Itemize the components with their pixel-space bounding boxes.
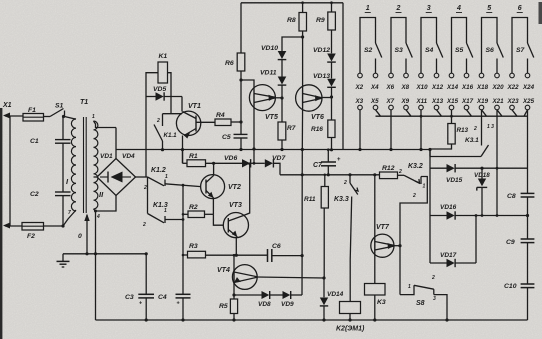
svg-text:VD11: VD11: [260, 70, 277, 77]
svg-text:X1: X1: [2, 102, 12, 109]
switch S2: [376, 43, 382, 58]
wire 0 output lead: [86, 215, 88, 254]
svg-text:6: 6: [518, 5, 522, 12]
svg-text:VD1: VD1: [100, 153, 113, 160]
wire VT7 to K3 coil: [374, 253, 376, 284]
svg-text:X5: X5: [370, 98, 379, 105]
svg-text:R7: R7: [287, 125, 296, 132]
diode VD6: [242, 159, 250, 167]
svg-text:VT5: VT5: [265, 114, 278, 121]
resistor R6: [237, 53, 245, 71]
wire K3.2 fixed path: [400, 177, 427, 295]
wire primary bottom to F2 line: [63, 210, 76, 226]
svg-text:S4: S4: [425, 47, 434, 54]
capacitor C5: [234, 133, 248, 135]
svg-text:S7: S7: [516, 47, 526, 54]
svg-text:VD4: VD4: [122, 153, 135, 160]
fuse F2: [22, 223, 44, 231]
svg-text:K3.1: K3.1: [465, 137, 479, 144]
node R5-VD8 branch: [232, 293, 235, 296]
node C7 on lower bus: [327, 173, 330, 176]
wire X11 to main bus: [420, 110, 422, 150]
wire R6 branch to VT5: [241, 80, 254, 90]
node K3.3 on lower bus: [348, 173, 351, 176]
capacitor C2: [55, 191, 71, 193]
node VT5 emitter junction: [280, 96, 283, 99]
svg-text:R12: R12: [382, 165, 395, 172]
wire C6 to VT6 column: [272, 255, 302, 257]
node transformer 0 on ground bus: [85, 252, 88, 255]
svg-text:R4: R4: [216, 112, 225, 119]
svg-text:R11: R11: [304, 196, 316, 203]
diode VD15: [447, 164, 455, 172]
terminal X11: [419, 105, 424, 110]
node VT6 column on lower bus: [301, 173, 304, 176]
wire bridge 6: [512, 18, 528, 74]
diode VD8: [262, 291, 270, 299]
node R8 branch: [301, 35, 304, 38]
wire R1 to VD6: [206, 162, 243, 164]
wire X1 left riser: [9, 116, 11, 226]
svg-text:1: 1: [408, 284, 411, 290]
wire S1 to primary top: [73, 118, 76, 121]
svg-text:X21: X21: [492, 98, 505, 105]
node K2 on bottom rail: [348, 318, 351, 321]
svg-text:X13: X13: [431, 98, 444, 105]
diode VD5: [146, 96, 156, 98]
svg-text:VD10: VD10: [261, 45, 278, 52]
node VT7 emitter junction: [398, 244, 401, 247]
svg-text:VD7: VD7: [272, 155, 286, 162]
node secondary-bottom ground tee: [94, 210, 97, 213]
wire bridge 2: [391, 18, 406, 74]
fuse F1: [23, 114, 44, 122]
node ladder x476: [475, 214, 478, 217]
diode VD9: [283, 291, 291, 299]
svg-text:X2: X2: [355, 84, 364, 91]
wire C1 riser: [62, 117, 64, 140]
wire K1.3 to vertical: [165, 219, 183, 221]
link X17 to terminal bus: [467, 110, 472, 116]
terminal X17: [464, 105, 469, 110]
wire VD12-VD13: [331, 62, 333, 78]
wire rail C8-C9: [527, 197, 529, 239]
svg-text:C2: C2: [30, 191, 39, 198]
wire VD14 lead: [323, 278, 325, 297]
wire vertical to R2: [183, 213, 188, 215]
terminal X24: [525, 73, 530, 78]
svg-text:X9: X9: [401, 98, 410, 105]
wire rail C10-bottom: [527, 288, 529, 320]
switch S5: [467, 43, 473, 58]
node S8 on bottom rail: [445, 318, 448, 321]
transformer T1 core: [83, 117, 85, 213]
transistor VT2: [201, 175, 225, 199]
wire K1.2 to VT2 base: [165, 184, 201, 187]
wire bridge top riser: [115, 128, 117, 160]
svg-text:VT4: VT4: [217, 267, 230, 274]
svg-text:R1: R1: [189, 153, 198, 160]
wire X15 to R13: [451, 110, 453, 124]
wire bridge 5: [482, 18, 498, 74]
wire K1.1 node: [163, 113, 183, 115]
contact K1.2: [148, 177, 165, 186]
svg-text:C10: C10: [504, 283, 517, 290]
svg-text:5: 5: [487, 5, 491, 12]
terminal X7: [389, 105, 394, 110]
relay coil K2: [340, 302, 361, 314]
terminal X3: [358, 105, 363, 110]
svg-text:S5: S5: [455, 47, 464, 54]
resistor R1: [187, 160, 206, 167]
wire VT6 base riser: [302, 37, 304, 90]
node VT1 emitter on main bus: [181, 148, 184, 151]
wire R8 to VD10: [282, 37, 303, 51]
wire C3 to bottom rail: [145, 298, 147, 320]
node VT3 collector tee: [248, 162, 251, 165]
wire S8 to bottom rail: [434, 295, 447, 320]
resistor R5: [230, 299, 237, 314]
wire R8 top: [302, 3, 304, 13]
node VT5 collector on main bus: [252, 147, 255, 150]
transistor VT6: [296, 85, 322, 111]
svg-text:X17: X17: [461, 98, 474, 105]
relay coil K1: [158, 62, 168, 83]
wire C1-C2: [62, 143, 64, 192]
wire VT3 base riser: [213, 214, 223, 225]
svg-text:R5: R5: [219, 303, 228, 310]
svg-text:VD12: VD12: [313, 47, 330, 54]
terminal X13: [434, 105, 439, 110]
wire VT5 emitter to diode chain: [276, 97, 283, 99]
node VD18 top: [480, 167, 483, 170]
node VT4 wire on VD14 column: [322, 276, 325, 279]
wire VD11 to R7: [281, 85, 283, 122]
wire R11 to VD14: [323, 208, 325, 278]
terminal X22: [510, 73, 515, 78]
wire lower bus: [280, 174, 380, 176]
svg-text:VT7: VT7: [376, 224, 390, 231]
wire rail C9-C10: [527, 243, 529, 284]
svg-text:X10: X10: [416, 84, 429, 91]
wire F1 to S1: [44, 116, 51, 118]
wire VD8 lead: [234, 294, 262, 296]
contact S8: [414, 285, 434, 289]
wire R12 to K3.2: [398, 174, 405, 176]
node R9 on rail: [330, 1, 333, 4]
contact K1.3: [148, 214, 165, 223]
X1 top arrow: [3, 113, 10, 119]
ground symbol: [62, 254, 64, 261]
terminal X20: [495, 73, 500, 78]
svg-text:2: 2: [431, 275, 435, 281]
wire bridge 3: [421, 18, 437, 74]
scan edge artifact left: [0, 108, 2, 339]
transistor VT3: [223, 213, 248, 238]
node C7 on main bus: [327, 148, 330, 151]
wire X25 rail top: [527, 110, 529, 194]
terminal X14: [449, 73, 454, 78]
contact K3.3: [349, 175, 351, 183]
svg-text:X16: X16: [461, 84, 474, 91]
wire X1 top lead: [5, 115, 23, 117]
svg-text:1: 1: [92, 114, 95, 120]
scan artifact top right: [539, 2, 542, 24]
terminal X23: [510, 105, 515, 110]
wire R8 bottom: [302, 31, 304, 37]
node VD18 bottom: [481, 214, 484, 217]
svg-text:7: 7: [68, 210, 71, 216]
X1 bottom arrow: [3, 223, 10, 229]
svg-text:X24: X24: [522, 84, 535, 91]
wire VD17 row: [430, 262, 447, 264]
svg-text:S8: S8: [416, 300, 425, 307]
wire VT6 emitter to right chain: [322, 97, 332, 99]
svg-text:X6: X6: [386, 84, 395, 91]
node R6-VT5 branch: [239, 78, 242, 81]
svg-text:C4: C4: [158, 294, 167, 301]
svg-text:VD5: VD5: [153, 86, 166, 93]
svg-text:X15: X15: [446, 98, 459, 105]
svg-text:VD15: VD15: [446, 177, 463, 184]
node R11 on lower bus: [324, 174, 327, 177]
wire R6 to C5: [240, 71, 242, 134]
svg-text:X7: X7: [386, 98, 395, 105]
svg-text:1: 1: [164, 208, 167, 214]
svg-text:+: +: [177, 301, 180, 307]
wire VT2 collector riser: [213, 163, 215, 175]
wire bridge minus riser: [95, 211, 97, 254]
capacitor C10: [521, 283, 535, 285]
wire VT4 emitter to VD14 column: [257, 277, 324, 278]
wire common vertical to bottom rail: [182, 185, 184, 294]
wire VT2 emitter: [212, 198, 214, 214]
diode VD17: [447, 259, 455, 267]
resistor R12: [380, 172, 398, 179]
node VT3-VT4 on C6 wire: [235, 254, 238, 257]
node ladder top: [428, 148, 431, 151]
wire VD5 loop to K1.2 riser: [145, 97, 147, 178]
svg-text:X18: X18: [476, 84, 489, 91]
wire VT3 emitter: [235, 237, 237, 255]
wire K3 to bottom rail: [374, 295, 376, 320]
transistor VT4: [232, 265, 257, 290]
svg-text:4: 4: [456, 5, 461, 12]
wire X3 to main bus: [359, 110, 361, 150]
contact K3.2: [404, 175, 420, 183]
switch S7: [528, 43, 534, 58]
switch S3: [406, 43, 412, 58]
0 output arrow: [84, 214, 89, 222]
resistor R4: [215, 119, 231, 126]
svg-text:C8: C8: [507, 193, 516, 200]
wire ladder left rail: [429, 150, 431, 264]
svg-text:1: 1: [366, 5, 370, 12]
wire VD6-VD7: [251, 162, 265, 164]
wire rail right riser: [342, 3, 344, 150]
terminal X4: [373, 73, 378, 78]
capacitor C1: [55, 139, 71, 141]
resistor R9: [328, 12, 336, 30]
resistor R8: [299, 13, 307, 32]
capacitor C3: [138, 293, 154, 295]
wire R13 bottom jog: [430, 144, 452, 149]
node VT7 on lower bus: [373, 173, 376, 176]
wire R2 to VT2 emitter: [205, 213, 214, 215]
svg-text:K1.2: K1.2: [151, 167, 166, 174]
svg-text:R16: R16: [311, 126, 323, 133]
diode VD7: [265, 159, 273, 167]
svg-text:S2: S2: [364, 47, 373, 54]
wire VD16 row: [430, 215, 447, 217]
svg-text:X4: X4: [370, 84, 379, 91]
node R5 on bottom rail: [232, 318, 235, 321]
terminal X25: [525, 105, 530, 110]
terminal X10: [419, 73, 424, 78]
svg-text:1 3: 1 3: [487, 124, 494, 130]
wire X1 bottom lead: [5, 225, 22, 227]
wire VT1 emitter to R1: [182, 150, 184, 164]
wire VD15 row: [430, 167, 447, 169]
terminal X16: [464, 73, 469, 78]
wire K3.3 to K2 coil: [350, 197, 352, 302]
svg-text:X8: X8: [401, 84, 410, 91]
svg-text:C3: C3: [125, 294, 134, 301]
node bridge minus on ground bus: [94, 252, 97, 255]
capacitor C9: [521, 238, 535, 240]
svg-text:VD9: VD9: [281, 301, 294, 308]
wire X21 riser: [496, 110, 498, 216]
link X13 to terminal bus: [437, 110, 442, 116]
wire R5 to bottom rail: [233, 314, 235, 321]
svg-text:X11: X11: [416, 98, 428, 105]
svg-text:R8: R8: [287, 17, 296, 24]
svg-text:VD17: VD17: [440, 252, 457, 259]
svg-text:C7: C7: [313, 162, 323, 169]
wire R6 column top: [240, 3, 242, 53]
svg-text:C6: C6: [272, 243, 281, 250]
switch S6: [497, 43, 503, 58]
svg-text:S6: S6: [486, 47, 495, 54]
link X9 to terminal bus: [406, 110, 411, 116]
wire X7 to main bus: [390, 110, 392, 150]
wire VT1 collector riser: [181, 97, 183, 112]
wire VT7 collector riser: [374, 175, 376, 239]
svg-text:2: 2: [142, 222, 146, 228]
wire vertical to R3: [183, 254, 188, 256]
wire VD7 to lower bus: [273, 163, 280, 175]
svg-text:X23: X23: [507, 98, 520, 105]
transformer T1 secondary winding II: [94, 121, 98, 209]
svg-text:4: 4: [96, 214, 100, 220]
node S1-C1 junction: [62, 115, 65, 118]
wire terminal bus: [376, 115, 528, 117]
bridge rectifier VD1-VD4 diamond: [97, 159, 136, 196]
svg-text:3: 3: [427, 5, 431, 12]
wire VT6 collector long riser: [301, 106, 304, 295]
svg-text:2: 2: [412, 193, 416, 199]
switch S4: [437, 43, 443, 58]
terminal X21: [495, 105, 500, 110]
wire VD10-VD11: [281, 60, 283, 77]
svg-text:VD18: VD18: [474, 172, 490, 179]
wire VT3 collector riser: [244, 164, 250, 216]
wire VD14 to bottom rail: [323, 306, 325, 320]
wire C2 to F2 line: [62, 196, 64, 226]
svg-text:F2: F2: [27, 233, 35, 240]
wire secondary top to bridge top: [94, 121, 117, 128]
svg-text:R6: R6: [225, 60, 234, 67]
capacitor C8: [521, 192, 535, 194]
diode VD13: [327, 79, 336, 87]
svg-text:R2: R2: [189, 204, 198, 211]
transistor VT5: [249, 85, 275, 111]
svg-text:2: 2: [343, 180, 347, 186]
svg-text:2: 2: [473, 126, 477, 132]
wire C5 to main bus: [240, 138, 242, 150]
wire C3 riser: [145, 254, 147, 294]
terminal X12: [434, 73, 439, 78]
svg-text:VD16: VD16: [440, 204, 457, 211]
wire VT5 collector riser: [253, 106, 255, 163]
bridge inner diode: [111, 172, 123, 183]
node C3 on ground bus: [145, 252, 148, 255]
svg-text:K3.3: K3.3: [334, 196, 349, 203]
wire bridge 4: [452, 18, 467, 74]
wire R7 to main bus: [281, 140, 283, 150]
svg-text:K3.2: K3.2: [408, 163, 423, 170]
svg-text:VT2: VT2: [228, 184, 241, 191]
wire K2 to bottom rail: [349, 314, 351, 321]
terminal X5: [373, 105, 378, 110]
node VT6 collector on main bus: [301, 148, 304, 151]
node R4 junction: [239, 120, 242, 123]
terminal X18: [479, 73, 484, 78]
node VT5-collector on line B: [253, 162, 256, 165]
wire F2 to C2 node: [44, 225, 64, 227]
diode VD14: [320, 298, 328, 306]
transformer T1 primary winding I: [71, 119, 76, 211]
svg-text:X22: X22: [507, 84, 520, 91]
wire R9 to VD12: [331, 30, 333, 53]
wire bridge 1: [360, 18, 376, 74]
svg-text:F1: F1: [28, 107, 36, 114]
diode VD12: [327, 54, 336, 62]
node C6 junction: [301, 254, 304, 257]
svg-text:R3: R3: [189, 243, 198, 250]
transistor VT1: [176, 111, 200, 135]
terminal X9: [404, 105, 409, 110]
diode VD10: [278, 51, 287, 59]
wire VD8-VD9: [270, 294, 283, 296]
wire R9 top: [331, 3, 333, 12]
wire VD13 to R16: [331, 88, 333, 121]
node VD14 on bottom rail: [322, 318, 325, 321]
wire ladder mid riser: [475, 216, 477, 264]
wire X19 to K3.1: [481, 110, 483, 146]
node K3 on bottom rail: [373, 318, 376, 321]
svg-text:VT6: VT6: [311, 114, 324, 121]
svg-text:T1: T1: [80, 99, 88, 106]
svg-text:VT3: VT3: [229, 202, 242, 209]
svg-text:2: 2: [143, 185, 147, 191]
svg-text:+: +: [139, 301, 142, 307]
svg-text:C9: C9: [506, 239, 515, 246]
resistor R7: [278, 122, 286, 140]
node VT6 emitter junction: [330, 95, 333, 98]
svg-text:R13: R13: [457, 127, 469, 134]
wire ground bus: [63, 253, 146, 255]
